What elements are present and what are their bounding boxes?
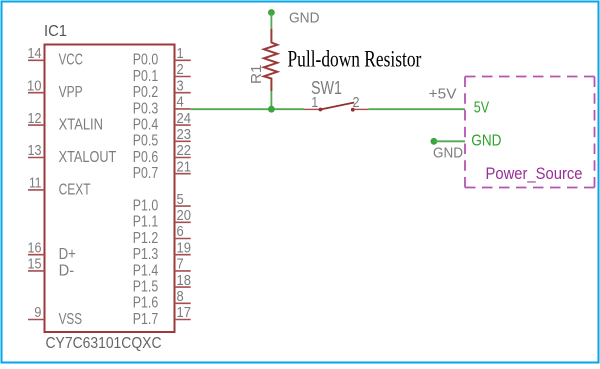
svg-text:2: 2: [177, 62, 184, 78]
svg-text:22: 22: [177, 143, 192, 159]
pin 24 (P0.4) stub: [175, 124, 191, 126]
pin 12 (XTALIN) stub: [28, 124, 45, 126]
pin 22 (P0.6) stub: [175, 157, 191, 159]
pin 2 (P0.1) stub: [175, 76, 191, 78]
svg-text:P1.1: P1.1: [133, 214, 158, 231]
pin 23 (P0.5) stub: [175, 140, 191, 142]
svg-text:15: 15: [28, 257, 42, 273]
node GND (top supply dot): [268, 9, 275, 16]
module Power_Source dashed box top edge: [465, 76, 595, 78]
switch SW1 pin 2 stub: [355, 108, 369, 110]
pin 6 (P1.2) stub: [175, 238, 191, 240]
pin 14 (VCC) stub: [28, 59, 45, 61]
svg-text:11: 11: [29, 176, 42, 192]
svg-text:P1.2: P1.2: [133, 230, 158, 247]
svg-text:VSS: VSS: [59, 311, 83, 328]
wire GND dot to resistor R1 top: [270, 13, 272, 29]
svg-text:19: 19: [177, 240, 192, 256]
switch SW1 lever: [320, 103, 354, 110]
module Power_Source dashed box bottom edge: [465, 187, 595, 189]
svg-text:CEXT: CEXT: [59, 181, 91, 198]
svg-text:5: 5: [177, 192, 184, 208]
node GND dot (power source): [431, 138, 438, 145]
svg-text:5V: 5V: [474, 100, 490, 117]
pin 7 (P1.4) stub: [175, 270, 191, 272]
wire pin4/P0.3 to switch SW1: [191, 108, 304, 110]
svg-text:7: 7: [177, 257, 184, 273]
svg-text:GND: GND: [471, 132, 501, 149]
svg-text:P0.6: P0.6: [133, 149, 158, 166]
svg-text:Pull-down Resistor: Pull-down Resistor: [288, 47, 422, 72]
svg-text:16: 16: [28, 240, 42, 256]
svg-text:GND: GND: [433, 145, 463, 162]
svg-text:P0.3: P0.3: [133, 100, 158, 117]
svg-text:P1.7: P1.7: [133, 311, 158, 328]
svg-text:18: 18: [177, 273, 192, 289]
svg-text:D+: D+: [59, 246, 76, 263]
svg-text:20: 20: [177, 208, 192, 224]
switch SW1 right contact dot: [351, 108, 355, 112]
svg-text:P1.4: P1.4: [133, 262, 158, 279]
svg-text:2: 2: [353, 95, 360, 111]
svg-text:D-: D-: [59, 262, 75, 279]
svg-text:P1.6: P1.6: [133, 295, 158, 312]
svg-text:Power_Source: Power_Source: [486, 165, 583, 183]
module Power_Source dashed box left edge: [464, 77, 466, 188]
svg-text:24: 24: [177, 111, 192, 127]
svg-text:P0.4: P0.4: [133, 117, 158, 134]
svg-text:17: 17: [177, 305, 192, 321]
svg-text:+5V: +5V: [429, 86, 457, 103]
svg-text:P0.0: P0.0: [133, 52, 158, 69]
pin 1 (P0.0) stub: [175, 59, 191, 61]
switch SW1 pin 1 stub: [304, 108, 319, 110]
svg-text:CY7C63101CQXC: CY7C63101CQXC: [46, 335, 162, 352]
svg-text:P1.5: P1.5: [133, 279, 158, 296]
svg-text:13: 13: [28, 143, 42, 159]
pin 8 (P1.6) stub: [175, 302, 191, 304]
svg-text:1: 1: [177, 46, 184, 62]
pin 4 (P0.3) stub: [175, 108, 191, 110]
svg-text:GND: GND: [289, 10, 320, 27]
svg-text:9: 9: [34, 305, 41, 321]
svg-text:IC1: IC1: [44, 23, 67, 40]
svg-text:P1.3: P1.3: [133, 246, 158, 263]
svg-text:XTALIN: XTALIN: [59, 117, 103, 134]
svg-text:P0.1: P0.1: [133, 68, 158, 85]
wire switch SW1 to Power_Source 5V: [368, 108, 465, 110]
svg-text:1: 1: [311, 95, 318, 111]
svg-text:14: 14: [28, 46, 42, 62]
resistor R1: [264, 29, 277, 91]
pin 20 (P1.1) stub: [175, 221, 191, 223]
junction dot at R1 / P0.3 net: [268, 106, 275, 113]
svg-text:10: 10: [27, 78, 42, 94]
svg-text:P0.2: P0.2: [133, 84, 158, 101]
wire GND dot to Power_Source GND: [434, 140, 465, 142]
svg-text:12: 12: [28, 111, 42, 127]
svg-text:4: 4: [177, 95, 184, 111]
wire resistor R1 bottom to junction: [270, 91, 272, 109]
pin 13 (XTALOUT) stub: [28, 157, 45, 159]
svg-text:21: 21: [177, 159, 192, 175]
svg-text:R1: R1: [249, 65, 265, 85]
svg-text:VPP: VPP: [59, 84, 83, 101]
pin 11 (CEXT) stub: [28, 189, 45, 191]
pin 19 (P1.3) stub: [175, 254, 191, 256]
svg-text:VCC: VCC: [59, 52, 83, 69]
pin 17 (P1.7) stub: [175, 319, 191, 321]
svg-text:P1.0: P1.0: [133, 198, 158, 215]
pin 3 (P0.2) stub: [175, 92, 191, 94]
pin 16 (D+) stub: [28, 254, 45, 256]
svg-text:8: 8: [177, 289, 184, 305]
module Power_Source dashed box right edge: [594, 77, 596, 188]
svg-text:3: 3: [177, 78, 184, 94]
pin 21 (P0.7) stub: [175, 173, 191, 175]
pin 9 (VSS) stub: [28, 319, 45, 321]
svg-text:23: 23: [177, 127, 192, 143]
switch SW1 left contact dot: [319, 108, 323, 112]
pin 5 (P1.0) stub: [175, 205, 191, 207]
pin 10 (VPP) stub: [28, 92, 45, 94]
IC U=IC1 body: [45, 45, 175, 333]
svg-text:6: 6: [177, 224, 184, 240]
pin 15 (D-) stub: [28, 270, 45, 272]
pin 18 (P1.5) stub: [175, 286, 191, 288]
svg-text:P0.5: P0.5: [133, 133, 158, 150]
svg-text:P0.7: P0.7: [133, 165, 158, 182]
svg-text:XTALOUT: XTALOUT: [59, 149, 117, 166]
